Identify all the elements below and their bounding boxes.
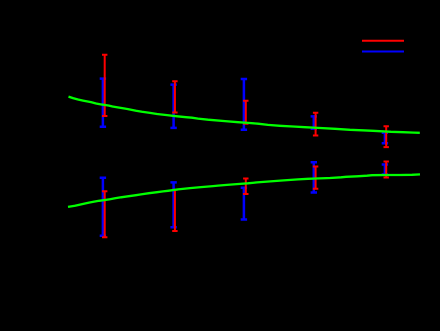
blue error bar point 2 top curve [170,85,176,129]
red error bar point 1 bottom curve [102,191,107,237]
blue error bar point 4 bottom curve [311,162,317,192]
blue error bar point 3 top curve [241,79,247,130]
red error bar point 5 bottom curve [384,161,389,177]
red error bar point 4 bottom curve [313,166,318,189]
blue error bar point 4 top curve [311,116,317,129]
blue error bar point 5 bottom curve [382,164,388,174]
red error bar point 5 top curve [384,126,389,147]
red error bar point 3 bottom curve [243,178,248,194]
legend red line sample [362,40,404,42]
red error bar point 2 top curve [172,81,177,112]
blue error bar point 5 top curve [382,133,388,144]
blue error bar point 1 bottom curve [100,178,106,236]
blue error bar point 2 bottom curve [170,182,176,227]
red error bar point 2 bottom curve [172,190,177,232]
red error bar point 3 top curve [243,101,248,124]
legend blue line sample [362,51,404,53]
blue error bar point 1 top curve [100,79,106,127]
blue error bar point 3 bottom curve [241,188,247,220]
green fit curve lower branch [68,174,420,207]
red error bar point 4 top curve [313,113,318,136]
red error bar point 1 top curve [102,55,107,117]
green fit curve upper branch [69,97,420,133]
